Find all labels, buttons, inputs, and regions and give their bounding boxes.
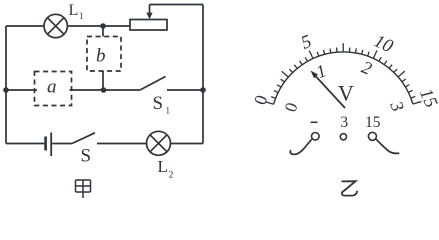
lamp L1 (44, 14, 67, 37)
svg-text:3: 3 (340, 114, 348, 131)
svg-text:1: 1 (166, 106, 171, 116)
svg-text:b: b (96, 46, 106, 67)
svg-text:0: 0 (250, 92, 272, 107)
switch S blade (72, 133, 95, 144)
svg-text:2: 2 (169, 170, 174, 180)
label V (meter unit) (338, 80, 354, 105)
switch S contact wire (97, 143, 147, 145)
component box b (dashed) (87, 37, 121, 72)
wire lamp L1 to rheostat (67, 25, 130, 27)
meter needle (311, 71, 346, 109)
svg-text:L: L (69, 2, 79, 19)
svg-text:S: S (153, 93, 164, 114)
svg-text:0: 0 (281, 100, 302, 114)
wire stub below box b (102, 71, 104, 90)
wire lead left terminal (290, 139, 312, 154)
node junction top (dot) (100, 23, 106, 29)
wire lamp L2 to right corner (171, 143, 204, 145)
terminal label 15 (365, 114, 381, 131)
svg-text:L: L (158, 157, 168, 176)
label S (81, 146, 92, 167)
node left junction (dot) (3, 87, 9, 93)
wire right vertical (202, 5, 204, 144)
wire battery to switch S (52, 143, 72, 145)
svg-text:1: 1 (79, 11, 84, 21)
terminal post 15 (368, 132, 376, 140)
node right junction (dot) (200, 87, 206, 93)
svg-text:a: a (47, 77, 57, 98)
meter outer scale labels (250, 31, 439, 110)
switch S1 blade (140, 77, 166, 91)
svg-text:1: 1 (313, 60, 329, 82)
rheostat slider arrow (146, 5, 152, 20)
wire bottom-left to battery (6, 143, 44, 145)
component box a (dashed) (35, 72, 72, 106)
svg-text:3: 3 (386, 97, 408, 114)
label S1 (153, 93, 171, 116)
label yi (caption of meter) (342, 181, 358, 195)
switch S1 contact wire (167, 89, 203, 91)
terminal post 3 (340, 134, 346, 140)
label a (47, 77, 57, 98)
meter scale arc (274, 52, 413, 104)
svg-text:15: 15 (365, 114, 381, 131)
svg-text:10: 10 (371, 31, 397, 57)
wire stub above box b (102, 26, 104, 37)
label L2 (158, 157, 174, 180)
wire top-left horizontal (6, 25, 44, 27)
terminal label minus (311, 121, 318, 123)
label L1 (69, 2, 84, 21)
meter scale ticks (265, 43, 421, 104)
svg-text:5: 5 (299, 32, 315, 54)
label jia (caption of circuit) (76, 180, 91, 198)
battery cell (46, 133, 52, 157)
wire middle-left to box a (6, 89, 37, 91)
svg-text:15: 15 (415, 86, 439, 111)
lamp L2 (147, 131, 171, 155)
svg-text:S: S (81, 146, 92, 167)
node junction middle (dot) (101, 87, 107, 93)
meter inner scale labels (281, 57, 408, 114)
wire box a to switch S1 (70, 89, 141, 91)
resistor rheostat (130, 20, 167, 31)
terminal post minus (312, 133, 320, 141)
terminal label 3 (340, 114, 348, 131)
wire left vertical (5, 26, 7, 144)
svg-text:V: V (338, 80, 354, 105)
svg-text:2: 2 (359, 57, 375, 79)
wire top-right horizontal (150, 4, 204, 6)
wire lead right terminal (376, 139, 399, 153)
label b (96, 46, 106, 67)
